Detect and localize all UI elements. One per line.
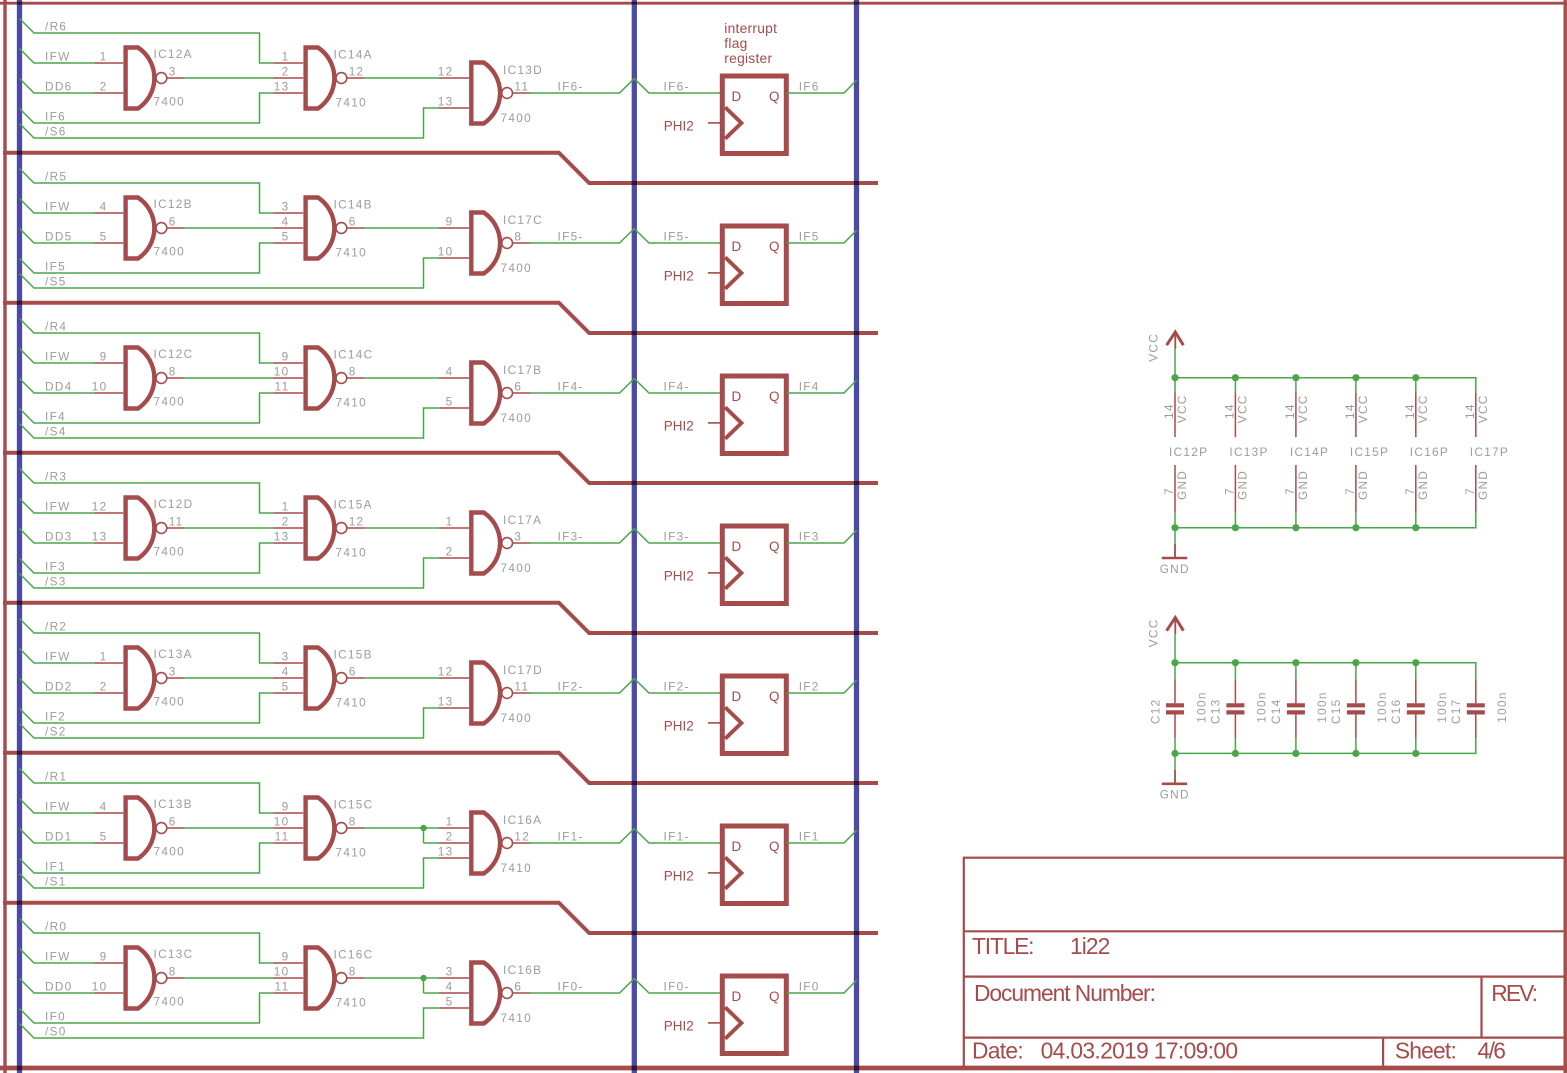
junction [420, 975, 426, 981]
svg-text:GND: GND [1476, 470, 1490, 500]
svg-text:3: 3 [169, 665, 177, 679]
power device IC12P: VCC pin 14, GND pin 7 [1162, 378, 1208, 528]
wire GND rail (caps) [1175, 738, 1476, 770]
svg-text:100n: 100n [1194, 691, 1208, 722]
svg-text:5: 5 [282, 680, 290, 694]
clock input PHI2 [664, 869, 723, 884]
svg-text:6: 6 [169, 215, 177, 229]
svg-text:3: 3 [446, 965, 454, 979]
svg-text:14: 14 [1283, 403, 1297, 419]
wire net IF5 [20, 243, 274, 273]
clock input PHI2 [664, 719, 723, 734]
bus DBUS left [17, 0, 22, 1073]
svg-text:IF6: IF6 [45, 110, 66, 124]
wire net IF0 [20, 993, 274, 1023]
NAND gate IC13B (7400) pins 4,5 out 6 [95, 797, 193, 858]
svg-text:11: 11 [275, 980, 290, 994]
svg-text:IF3: IF3 [45, 560, 66, 574]
svg-text:D: D [732, 89, 742, 104]
svg-text:IC17B: IC17B [503, 363, 542, 377]
wire net IF6- to bus [529, 79, 722, 93]
svg-text:14: 14 [1162, 403, 1176, 419]
wire net IFW row 1 [20, 799, 95, 814]
svg-text:PHI2: PHI2 [664, 569, 694, 584]
svg-text:5: 5 [446, 995, 454, 1009]
svg-text:14: 14 [1463, 403, 1477, 419]
D flip-flop IF5 (interrupt flag register bit 5) [722, 226, 786, 304]
svg-text:6: 6 [514, 380, 522, 394]
svg-text:11: 11 [275, 830, 290, 844]
wire net IF1 to bus [786, 830, 856, 843]
junction [420, 825, 426, 831]
svg-text:IF1: IF1 [45, 860, 66, 874]
svg-text:3: 3 [282, 200, 290, 214]
junction [1292, 374, 1299, 381]
svg-text:IFW: IFW [45, 650, 71, 664]
junction [1232, 659, 1239, 666]
svg-text:VCC: VCC [1476, 394, 1490, 423]
junction [1292, 659, 1299, 666]
svg-text:IC14C: IC14C [334, 348, 374, 362]
svg-text:4: 4 [100, 200, 108, 214]
svg-text:C12: C12 [1148, 699, 1162, 725]
wire net IFW row 2 [20, 649, 95, 664]
wire IC14C.8 to IC17B [365, 377, 440, 379]
wire GND rail (upper section) [1175, 512, 1476, 544]
wire net IF0 to bus [786, 980, 856, 993]
wire VCC rail (top) [1175, 378, 1476, 393]
svg-text:8: 8 [169, 965, 177, 979]
svg-text:7: 7 [1403, 487, 1417, 495]
svg-text:PHI2: PHI2 [664, 869, 694, 884]
svg-text:2: 2 [100, 80, 108, 94]
D flip-flop IF0 (interrupt flag register bit 0) [722, 976, 786, 1054]
svg-text:D: D [732, 389, 742, 404]
svg-text:IC17C: IC17C [503, 213, 543, 227]
svg-text:IC13A: IC13A [154, 647, 193, 661]
svg-text:Sheet:: Sheet: [1395, 1038, 1456, 1064]
svg-text:11: 11 [169, 515, 184, 529]
svg-text:5: 5 [446, 395, 454, 409]
svg-text:4: 4 [100, 800, 108, 814]
svg-text:IFW: IFW [45, 350, 71, 364]
wire IC12B.6 to IC14B [185, 227, 274, 229]
wire net IF3 to bus [786, 530, 856, 543]
svg-text:IC15P: IC15P [1350, 445, 1389, 459]
svg-text:6: 6 [169, 815, 177, 829]
NAND gate IC16B (7410) pins 3,4,5 out 6 [439, 963, 542, 1025]
D flip-flop IF3 (interrupt flag register bit 3) [722, 526, 786, 604]
svg-text:/S5: /S5 [45, 275, 67, 289]
wire net IF3- to bus [529, 529, 722, 543]
svg-text:IFW: IFW [45, 800, 71, 814]
svg-text:TITLE:: TITLE: [972, 933, 1033, 959]
svg-text:PHI2: PHI2 [664, 269, 694, 284]
svg-text:7400: 7400 [501, 411, 532, 425]
svg-text:GND: GND [1296, 470, 1310, 500]
svg-text:13: 13 [274, 80, 290, 94]
NAND gate IC14A (7410) pins 1,2,13 out 12 [274, 48, 373, 110]
svg-text:GND: GND [1175, 470, 1189, 500]
svg-text:IF0-: IF0- [664, 980, 690, 994]
svg-text:12: 12 [92, 500, 108, 514]
svg-text:7410: 7410 [336, 996, 367, 1010]
svg-text:/S2: /S2 [45, 725, 67, 739]
svg-text:DD3: DD3 [45, 530, 73, 544]
svg-text:1: 1 [100, 650, 108, 664]
wire net /S4 [20, 408, 440, 438]
svg-text:12: 12 [349, 65, 365, 79]
wire IC14A.12 to IC13D [365, 77, 440, 79]
svg-text:IF4-: IF4- [558, 380, 584, 394]
svg-text:2: 2 [446, 545, 454, 559]
NAND gate IC16A (7410) pins 1,2,13 out 12 [438, 813, 543, 875]
svg-text:IF5: IF5 [799, 230, 820, 244]
svg-text:/S0: /S0 [45, 1025, 67, 1039]
svg-text:13: 13 [92, 530, 108, 544]
svg-text:/S3: /S3 [45, 575, 67, 589]
svg-text:IF1-: IF1- [558, 830, 584, 844]
junction [1232, 750, 1239, 757]
NAND gate IC15C (7410) pins 9,10,11 out 8 [274, 798, 374, 860]
svg-text:C16: C16 [1389, 699, 1403, 725]
svg-text:7410: 7410 [501, 861, 532, 875]
svg-text:4: 4 [282, 665, 290, 679]
wire net IF2 to bus [786, 680, 856, 693]
svg-text:IC17D: IC17D [503, 663, 543, 677]
wire net /R6 [20, 19, 274, 64]
svg-text:IC17A: IC17A [503, 513, 542, 527]
junction [1171, 750, 1178, 757]
svg-text:8: 8 [349, 365, 357, 379]
svg-text:100n: 100n [1495, 691, 1509, 722]
wire net DD5 [20, 229, 95, 244]
svg-text:3: 3 [282, 650, 290, 664]
wire net DD6 [20, 79, 95, 94]
svg-text:VCC: VCC [1235, 394, 1249, 423]
svg-text:IF2-: IF2- [558, 680, 584, 694]
svg-text:4: 4 [282, 215, 290, 229]
svg-text:/R3: /R3 [45, 470, 67, 484]
svg-text:IC15A: IC15A [334, 498, 373, 512]
wire net /R0 [20, 919, 274, 964]
junction [1171, 374, 1178, 381]
svg-text:7400: 7400 [501, 261, 532, 275]
capacitor C12 100n [1148, 663, 1208, 754]
svg-text:IC16P: IC16P [1410, 445, 1449, 459]
svg-text:IF3: IF3 [799, 530, 820, 544]
svg-text:12: 12 [438, 665, 454, 679]
svg-text:register: register [724, 51, 772, 66]
svg-text:IC16B: IC16B [503, 963, 542, 977]
svg-text:9: 9 [282, 950, 290, 964]
power device IC15P: VCC pin 14, GND pin 7 [1343, 378, 1389, 528]
svg-text:5: 5 [100, 830, 108, 844]
svg-text:8: 8 [169, 365, 177, 379]
svg-text:10: 10 [438, 245, 454, 259]
junction [1292, 524, 1299, 531]
junction [1412, 659, 1419, 666]
svg-text:13: 13 [274, 530, 290, 544]
bus IF right [854, 0, 859, 1073]
NAND gate IC17B (7400) pins 4,5 out 6 [439, 363, 542, 425]
wire net /S2 [20, 708, 440, 738]
svg-text:/S6: /S6 [45, 125, 67, 139]
svg-text:IF4: IF4 [799, 380, 820, 394]
svg-text:100n: 100n [1315, 691, 1329, 722]
wire net /R4 [20, 319, 274, 364]
svg-text:11: 11 [514, 680, 529, 694]
svg-text:11: 11 [275, 380, 290, 394]
svg-text:1: 1 [282, 500, 290, 514]
wire net IF4 [20, 393, 274, 423]
junction [1171, 524, 1178, 531]
wire IC12A.3 to IC14A [185, 77, 274, 79]
NAND gate IC16C (7410) pins 9,10,11 out 8 [274, 948, 374, 1010]
capacitor C13 100n [1209, 663, 1269, 754]
svg-text:IF6-: IF6- [558, 80, 584, 94]
svg-text:D: D [732, 989, 742, 1004]
svg-text:DD5: DD5 [45, 230, 73, 244]
wire net IF4 to bus [786, 380, 856, 393]
wire net IF3 [20, 543, 274, 573]
wire net IFW row 6 [20, 49, 95, 64]
svg-text:DD4: DD4 [45, 380, 73, 394]
capacitor C15 100n [1329, 663, 1389, 754]
svg-text:PHI2: PHI2 [664, 1019, 694, 1034]
capacitor C17 100n [1449, 680, 1509, 739]
svg-text:13: 13 [438, 95, 454, 109]
svg-text:VCC: VCC [1147, 618, 1161, 647]
clock input PHI2 [664, 569, 723, 584]
svg-text:7: 7 [1463, 487, 1477, 495]
junction [1232, 374, 1239, 381]
NAND gate IC13A (7400) pins 1,2 out 3 [95, 647, 193, 708]
svg-text:D: D [732, 239, 742, 254]
svg-text:IC15C: IC15C [334, 798, 374, 812]
wire net /R5 [20, 169, 274, 214]
svg-text:IC14B: IC14B [334, 198, 373, 212]
svg-text:IC16A: IC16A [503, 813, 542, 827]
svg-text:6: 6 [514, 980, 522, 994]
title block [964, 858, 1565, 1068]
wire net IF6 to bus [786, 80, 856, 93]
svg-text:7400: 7400 [154, 844, 185, 858]
svg-text:4: 4 [446, 365, 454, 379]
svg-text:7410: 7410 [336, 396, 367, 410]
svg-text:7400: 7400 [154, 694, 185, 708]
NAND gate IC17C (7400) pins 9,10 out 8 [438, 213, 543, 275]
svg-text:GND: GND [1416, 470, 1430, 500]
wire net IFW row 4 [20, 349, 95, 364]
wire IC12D.11 to IC15A [185, 527, 274, 529]
svg-text:DD6: DD6 [45, 80, 73, 94]
svg-text:Date:: Date: [972, 1038, 1023, 1064]
wire VCC rail (caps) [1175, 663, 1476, 680]
svg-text:1: 1 [282, 50, 290, 64]
svg-text:DD2: DD2 [45, 680, 73, 694]
svg-text:PHI2: PHI2 [664, 719, 694, 734]
svg-text:14: 14 [1403, 403, 1417, 419]
svg-text:2: 2 [100, 680, 108, 694]
junction [1412, 750, 1419, 757]
NAND gate IC14C (7410) pins 9,10,11 out 8 [274, 348, 374, 410]
svg-text:C13: C13 [1209, 699, 1223, 725]
svg-text:12: 12 [349, 515, 365, 529]
svg-text:IF6: IF6 [799, 80, 820, 94]
svg-text:100n: 100n [1435, 691, 1449, 722]
svg-text:13: 13 [438, 845, 454, 859]
svg-text:IF1-: IF1- [664, 830, 690, 844]
svg-text:8: 8 [349, 815, 357, 829]
annotation: interrupt flag register [724, 21, 777, 66]
svg-text:IC13C: IC13C [154, 947, 194, 961]
wire net IF4- to bus [529, 379, 722, 393]
junction [1232, 524, 1239, 531]
svg-text:GND: GND [1356, 470, 1370, 500]
wire net IF1- to bus [529, 829, 722, 843]
wire net IFW row 3 [20, 499, 95, 514]
svg-text:3: 3 [514, 530, 522, 544]
svg-text:7400: 7400 [154, 994, 185, 1008]
svg-text:7410: 7410 [336, 246, 367, 260]
svg-text:VCC: VCC [1296, 394, 1310, 423]
svg-text:REV:: REV: [1491, 980, 1536, 1006]
wire IC14B.6 to IC17C [365, 227, 440, 229]
svg-text:VCC: VCC [1175, 394, 1189, 423]
wire IC15A.12 to IC17A [365, 527, 440, 529]
svg-text:/S4: /S4 [45, 425, 67, 439]
NAND gate IC12A (7400) pins 1,2 out 3 [95, 47, 193, 108]
svg-text:7410: 7410 [501, 1011, 532, 1025]
wire net IF5- to bus [529, 229, 722, 243]
svg-text:4/6: 4/6 [1478, 1038, 1506, 1064]
NAND gate IC12C (7400) pins 9,10 out 8 [92, 347, 194, 408]
svg-text:7400: 7400 [501, 111, 532, 125]
svg-text:VCC: VCC [1416, 394, 1430, 423]
svg-text:5: 5 [100, 230, 108, 244]
svg-text:DD1: DD1 [45, 830, 73, 844]
svg-text:9: 9 [100, 350, 108, 364]
NAND gate IC17D (7400) pins 12,13 out 11 [438, 663, 543, 725]
wire net /R2 [20, 619, 274, 664]
clock input PHI2 [664, 269, 723, 284]
svg-text:2: 2 [282, 515, 290, 529]
svg-text:7410: 7410 [336, 96, 367, 110]
wire IC15B.6 to IC17D [365, 677, 440, 679]
GND symbol (power pins) [1160, 544, 1190, 576]
svg-text:IF4: IF4 [45, 410, 66, 424]
NAND gate IC12D (7400) pins 12,13 out 11 [92, 497, 194, 558]
D flip-flop IF4 (interrupt flag register bit 4) [722, 376, 786, 454]
svg-text:IC12A: IC12A [154, 47, 193, 61]
svg-text:IC17P: IC17P [1470, 445, 1509, 459]
svg-text:13: 13 [438, 695, 454, 709]
svg-text:100n: 100n [1255, 691, 1269, 722]
svg-text:12: 12 [438, 65, 454, 79]
clock input PHI2 [664, 419, 723, 434]
svg-text:7: 7 [1283, 487, 1297, 495]
svg-text:Q: Q [769, 689, 780, 704]
junction [1352, 524, 1359, 531]
svg-text:/R0: /R0 [45, 920, 67, 934]
svg-text:Q: Q [769, 89, 780, 104]
svg-text:D: D [732, 689, 742, 704]
junction [1412, 524, 1419, 531]
junction [1412, 374, 1419, 381]
svg-text:IC12B: IC12B [154, 197, 193, 211]
wire net IFW row 5 [20, 199, 95, 214]
D flip-flop IF2 (interrupt flag register bit 2) [722, 676, 786, 754]
svg-text:9: 9 [100, 950, 108, 964]
svg-text:C15: C15 [1329, 699, 1343, 725]
svg-text:IC16C: IC16C [334, 948, 374, 962]
svg-text:1i22: 1i22 [1070, 933, 1110, 959]
svg-text:14: 14 [1343, 403, 1357, 419]
wire net DD4 [20, 379, 95, 394]
svg-text:IC12D: IC12D [154, 497, 194, 511]
wire net DD1 [20, 829, 95, 844]
wire net IFW row 0 [20, 949, 95, 964]
svg-text:1: 1 [446, 515, 454, 529]
capacitor C14 100n [1269, 663, 1329, 754]
wire VCC stem (caps) [1174, 634, 1176, 663]
wire net /S1 [20, 858, 440, 888]
svg-text:7410: 7410 [336, 846, 367, 860]
svg-text:IF0: IF0 [799, 980, 820, 994]
NAND gate IC12B (7400) pins 4,5 out 6 [95, 197, 193, 258]
wire IC15C.8 to IC16A [365, 828, 440, 843]
svg-text:IC14A: IC14A [334, 48, 373, 62]
svg-text:IC14P: IC14P [1290, 445, 1329, 459]
svg-text:/R4: /R4 [45, 320, 67, 334]
svg-text:GND: GND [1160, 788, 1190, 802]
svg-text:7410: 7410 [336, 546, 367, 560]
svg-text:/R2: /R2 [45, 620, 67, 634]
wire net DD0 [20, 979, 95, 994]
wire net /S3 [20, 558, 440, 588]
NAND gate IC13D (7400) pins 12,13 out 11 [438, 63, 543, 125]
svg-text:10: 10 [92, 980, 108, 994]
svg-text:14: 14 [1222, 403, 1236, 419]
svg-text:04.03.2019 17:09:00: 04.03.2019 17:09:00 [1041, 1038, 1238, 1064]
svg-text:6: 6 [349, 215, 357, 229]
svg-text:7: 7 [1162, 487, 1176, 495]
svg-text:IC13P: IC13P [1229, 445, 1268, 459]
svg-text:10: 10 [274, 365, 290, 379]
svg-text:IF5-: IF5- [664, 230, 690, 244]
power device IC14P: VCC pin 14, GND pin 7 [1283, 378, 1329, 528]
svg-text:9: 9 [282, 350, 290, 364]
wire net /S6 [20, 108, 440, 138]
NAND gate IC15A (7410) pins 1,2,13 out 12 [274, 498, 373, 560]
svg-text:C17: C17 [1449, 699, 1463, 725]
svg-text:1: 1 [446, 815, 454, 829]
VCC symbol (capacitor bank) [1147, 618, 1184, 648]
NAND gate IC17A (7400) pins 1,2 out 3 [439, 513, 542, 575]
svg-text:/S1: /S1 [45, 875, 67, 889]
NAND gate IC13C (7400) pins 9,10 out 8 [92, 947, 194, 1008]
svg-text:7400: 7400 [154, 94, 185, 108]
D flip-flop IF6 (interrupt flag register bit 6) [722, 76, 786, 154]
svg-text:IFW: IFW [45, 950, 71, 964]
GND symbol (capacitor bank) [1160, 770, 1190, 802]
svg-text:IC12P: IC12P [1169, 445, 1208, 459]
NAND gate IC15B (7410) pins 3,4,5 out 6 [274, 648, 373, 710]
svg-text:VCC: VCC [1147, 333, 1161, 362]
svg-text:IF2: IF2 [799, 680, 820, 694]
svg-text:3: 3 [169, 65, 177, 79]
